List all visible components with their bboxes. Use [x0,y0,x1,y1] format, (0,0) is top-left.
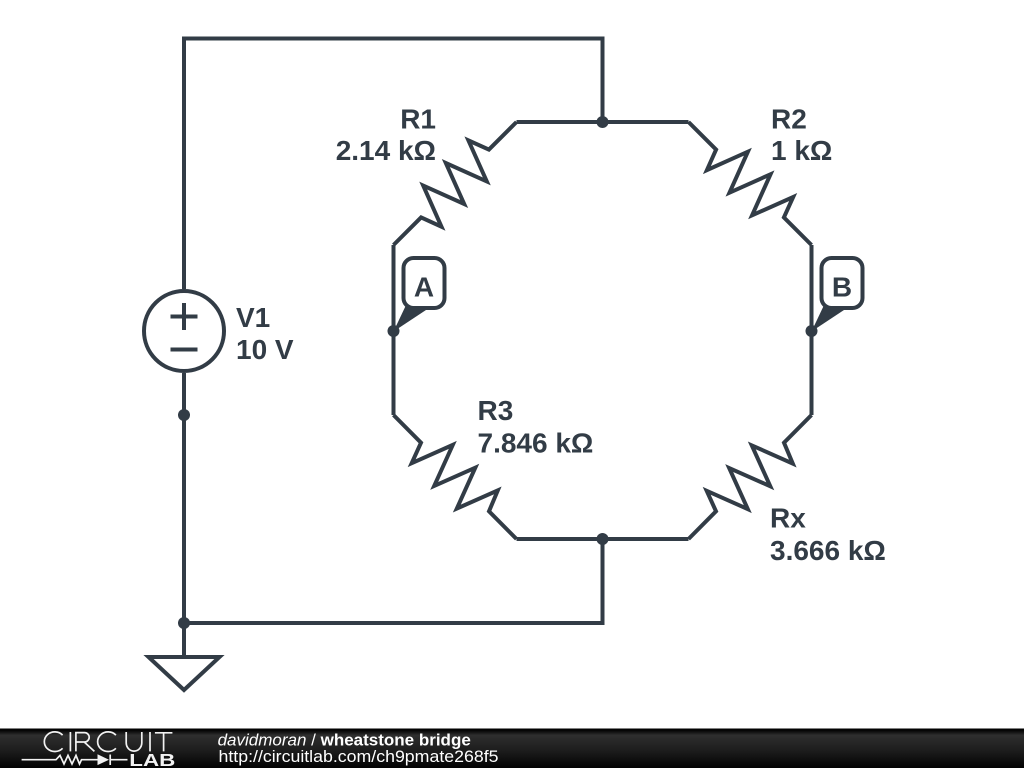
logo diode triangle [98,754,110,765]
svg-text:Rx: Rx [770,503,806,534]
V1 plus sign [171,303,198,330]
resistor R1 [394,122,517,245]
junction dot below V1 [178,409,190,421]
logo resistor-diode glyph [22,755,128,766]
voltage source V1 circle [144,291,224,371]
svg-text:7.846 kΩ: 7.846 kΩ [478,427,594,458]
node flag A pointer [394,303,427,332]
svg-text:2.14 kΩ: 2.14 kΩ [336,135,436,166]
svg-text:R2: R2 [771,103,807,134]
junction dot bottom-left corner [178,617,190,629]
resistor Rx [689,415,812,539]
svg-text:V1: V1 [236,302,270,333]
footer bar [0,729,1024,768]
junction dot node B [806,325,818,337]
node flag B pointer [812,303,845,332]
svg-text:3.666 kΩ: 3.666 kΩ [770,535,886,566]
CircuitLab logo CIRCUIT wordmark [44,732,172,752]
wire top horizontal from V1 to top node [184,39,603,290]
resistor R3 [394,415,517,539]
junction dot top node [597,116,609,128]
V1 minus sign [171,348,198,352]
svg-text:R3: R3 [478,395,514,426]
svg-text:http://circuitlab.com/ch9pmate: http://circuitlab.com/ch9pmate268f5 [219,747,499,766]
svg-text:10 V: 10 V [236,334,294,365]
bridge top horizontal wire [517,120,689,124]
svg-text:1 kΩ: 1 kΩ [771,135,832,166]
ground symbol [149,657,220,690]
bridge left vertical wire (node A side) [392,245,396,415]
svg-text:R1: R1 [400,103,436,134]
junction dot node A [388,325,400,337]
svg-text:B: B [832,272,852,303]
node flag A box [404,258,445,308]
bridge right vertical wire (node B side) [810,245,814,415]
wire bottom rail from left to bridge bottom node [184,539,603,623]
bridge bottom horizontal wire [517,537,689,541]
wire left vertical below V1 to bottom rail [182,373,186,657]
junction dot bottom node [597,533,609,545]
node flag B box [822,258,863,308]
svg-text:A: A [414,272,434,303]
svg-text:LAB: LAB [129,750,175,768]
resistor R2 [689,122,812,245]
